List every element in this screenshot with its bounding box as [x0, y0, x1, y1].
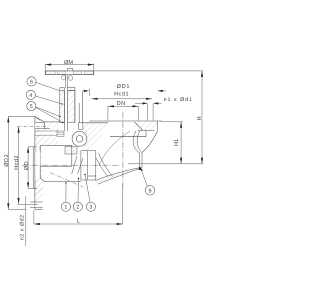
body outline right	[82, 91, 84, 123]
stem	[65, 75, 67, 88]
left port bore (white)	[35, 152, 40, 180]
dimension H1	[161, 121, 183, 123]
lower outlet wall band hatch	[96, 168, 143, 185]
svg-text:Hcd2: Hcd2	[13, 155, 20, 170]
svg-text:ØD1: ØD1	[116, 84, 130, 90]
packing gland right block	[68, 87, 75, 90]
seat lip arcs	[99, 153, 113, 177]
balloon 5	[27, 101, 36, 110]
body left mid hatch	[36, 123, 59, 132]
centerline left port (dash-dot)	[22, 164, 120, 166]
elbow innermost lip	[99, 131, 130, 166]
bonnet columns	[60, 91, 79, 132]
svg-text:ØD: ØD	[24, 161, 30, 170]
left flange bottom bolt hole	[35, 202, 42, 208]
lower outlet wall pair	[96, 168, 140, 181]
svg-text:6: 6	[30, 79, 33, 85]
dimension H	[201, 71, 203, 164]
balloon 1	[61, 202, 70, 211]
svg-text:L: L	[77, 219, 80, 225]
ring nut hatch backing	[72, 131, 88, 147]
seat tube	[81, 151, 96, 180]
balloon 3	[86, 202, 95, 211]
left flange plate	[35, 117, 43, 210]
dimension ØD2	[7, 116, 9, 209]
svg-text:Hcd1: Hcd1	[114, 90, 129, 97]
left flange chamfer	[35, 117, 40, 121]
stem top nut above wheel	[68, 68, 73, 71]
svg-text:9: 9	[149, 188, 152, 194]
packing gland left block	[60, 88, 65, 91]
svg-text:DN: DN	[117, 101, 126, 107]
right flange hatch band	[135, 121, 158, 130]
svg-text:ØD2: ØD2	[4, 154, 10, 167]
svg-text:4: 4	[29, 93, 32, 99]
balloon 4	[26, 90, 35, 99]
balloon 2	[73, 202, 82, 211]
handwheel	[45, 71, 94, 75]
svg-text:5: 5	[30, 104, 33, 110]
elbow upper bore wall pair	[133, 131, 139, 153]
valve plug disc	[65, 147, 77, 155]
dimension n2 x Ød2	[25, 196, 27, 246]
svg-text:1: 1	[64, 205, 67, 211]
elbow outer wall to neck	[142, 131, 158, 152]
right flange	[83, 121, 162, 137]
svg-text:n2 x Ød2: n2 x Ød2	[19, 214, 25, 240]
body bottom outline	[40, 166, 96, 181]
handwheel hub nut circles	[61, 75, 72, 80]
elbow upper bore wall band hatch	[133, 131, 141, 153]
centerline right port (dash-dot)	[122, 112, 124, 190]
body mid outline	[8, 116, 60, 166]
seat diagonal section	[72, 156, 83, 174]
svg-text:H1: H1	[174, 139, 180, 146]
bonnet seat notch	[79, 123, 83, 129]
body chamber	[40, 146, 72, 167]
balloon 9	[145, 186, 155, 196]
outlet neck verticals	[139, 152, 141, 167]
seat diagonal centerline (dash-dot)	[50, 173, 83, 188]
svg-text:2: 2	[76, 205, 79, 211]
svg-text:n1 x Ød1: n1 x Ød1	[164, 97, 194, 103]
left flange top bolt hole	[35, 123, 42, 129]
svg-text:ØM: ØM	[64, 60, 73, 66]
ring nut circle	[72, 131, 87, 146]
dimension ØM	[45, 64, 94, 71]
balloon 6	[27, 77, 36, 86]
packing detail box	[57, 131, 64, 136]
body top hatch left of bore	[83, 123, 108, 151]
svg-text:H: H	[197, 116, 203, 120]
bottom left hatch	[35, 177, 43, 196]
svg-text:3: 3	[89, 205, 92, 211]
wire: H top extension line	[94, 70, 203, 72]
left flange raised face	[33, 147, 35, 189]
dimension L	[34, 223, 123, 225]
dimension ØD	[27, 147, 29, 189]
dimension Hcd2	[18, 127, 20, 204]
